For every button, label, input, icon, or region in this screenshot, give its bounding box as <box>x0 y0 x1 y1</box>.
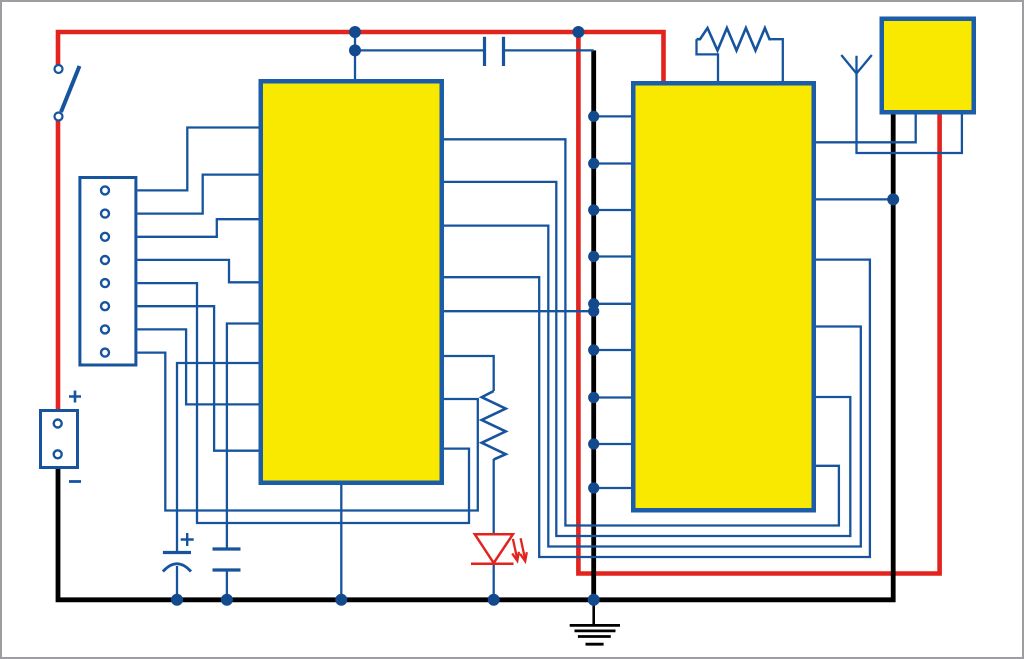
wire VCC red S1 to CON2 <box>56 120 61 410</box>
wire IC2 pin A7 stub <box>594 443 631 445</box>
connector CON2 2-pin <box>41 391 82 482</box>
wire IC2 pin A3 stub <box>594 255 631 257</box>
wire K MASK pin6 to C3 <box>177 363 259 552</box>
wire CON1 row C3 to X3 pin8 <box>138 306 260 451</box>
junction node A4/OE/ground <box>588 298 599 317</box>
module TX1 body <box>882 19 974 113</box>
wire IC2 pin A2 stub <box>594 209 631 211</box>
wire CON1 row C1 to X1 pin11 (route under IC1) <box>138 353 478 511</box>
junction node A6/ground <box>588 392 599 403</box>
junction node A0/ground <box>588 111 599 122</box>
capacitor C2 plates <box>213 549 241 570</box>
wire C pin15 to AD10 pin12 of IC2 <box>444 226 861 547</box>
wire C3 bottom lead to ground rail <box>176 566 178 600</box>
wire IC2 pin A4 stub <box>594 303 631 305</box>
junction node TE/ground <box>887 193 899 205</box>
wire C2 bottom lead to ground rail <box>226 570 228 600</box>
wire A pin17 to AD8 pin10 of IC2 <box>444 139 839 525</box>
wire D pin14 to AD11 pin13 of IC2 <box>444 260 870 557</box>
LED1 diode symbol <box>471 534 527 563</box>
ground symbol <box>570 600 620 644</box>
wire IC2 pin A0 stub <box>594 115 631 117</box>
wire IC2 pin A1 stub <box>594 162 631 164</box>
wire IC2 pin A6 stub <box>594 396 631 398</box>
junction node red rail branch <box>572 26 584 38</box>
wire VCC red top rail <box>58 32 664 82</box>
junction node LED1/ground rail <box>488 594 500 606</box>
wire IC1 GND pin9 to ground rail <box>340 485 342 600</box>
junction node A3/ground <box>588 251 599 262</box>
junction node C1/Vcc <box>349 44 361 56</box>
capacitor C3 electrolytic plates <box>163 533 194 572</box>
wire R2 bottom to LED1 anode <box>493 459 495 534</box>
connector CON1 8-pin header <box>80 178 136 366</box>
junction node A1/ground <box>588 158 599 169</box>
wire TE pin14 to ground line <box>815 198 894 200</box>
junction node at IC1 Vcc on red rail <box>349 26 361 38</box>
wire Y4 pin4 to CON1 row R4 <box>138 260 260 282</box>
wire LED1 cathode to ground rail <box>493 564 495 600</box>
wire IC1 Vcc pin 18 drop <box>354 32 356 80</box>
op-amp IC2 body HT12E <box>633 83 814 510</box>
wire C1 left lead <box>355 49 484 51</box>
junction node A7/ground <box>588 438 599 449</box>
switch S1 <box>55 65 80 121</box>
wire CON1 row C4 to X2 pin10 (route under IC1) <box>138 283 470 523</box>
resistor R2 zigzag body <box>482 391 506 460</box>
junction node A2/ground <box>588 204 599 215</box>
wire OE pin13 to ground bus <box>444 310 594 312</box>
antenna ANT.1 mast and wire to TX1 ANT pin4 <box>841 55 962 153</box>
wire Y1 pin1 to CON1 row R1 <box>138 128 260 191</box>
wire DA pin12 to R2 top <box>444 356 494 391</box>
wire VCC red branch to TX1 pin3 <box>578 32 939 574</box>
wire Y2 pin2 to CON1 row R2 <box>138 175 260 214</box>
junction node Vss/ground <box>588 482 599 493</box>
wire OSC pin5 to C2 <box>227 324 259 550</box>
wire Y3 pin3 to CON1 row R3 <box>138 219 260 237</box>
junction node C3/ground rail <box>171 594 183 606</box>
junction node A5/ground <box>588 344 599 355</box>
wire IC2 pin Vss stub <box>594 487 631 489</box>
wire IC2 pin A5 stub <box>594 349 631 351</box>
junction node ground symbol/ground rail <box>588 594 600 606</box>
junction node IC1 GND/ground rail <box>335 594 347 606</box>
wire DOUT pin17 to TX1 DATA pin2 <box>815 114 916 143</box>
wire B pin16 to AD9 pin11 of IC2 <box>444 182 850 536</box>
junction node C2/ground rail <box>221 594 233 606</box>
wire GND black CON2 to bottom rail to TX1 pin1 <box>58 114 893 600</box>
op-amp IC1 body MM74C922 <box>261 81 442 483</box>
resistor R1 zigzag body <box>697 28 772 51</box>
capacitor C1 plates <box>485 37 504 66</box>
wire R1 loop OSC1 to OSC2 <box>697 39 783 81</box>
wire CON1 row C2 to X4 pin7 <box>138 329 260 404</box>
wire GND black vertical bus left of IC2 <box>591 50 596 599</box>
wire C1 right lead to ground bus <box>505 49 594 51</box>
